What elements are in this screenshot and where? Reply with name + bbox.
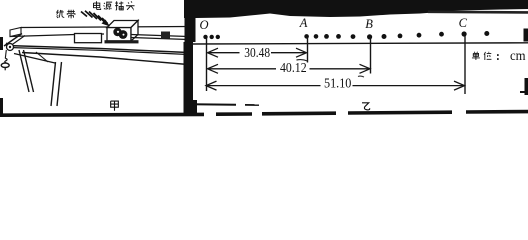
left scan edge bar — [0, 37, 3, 50]
measurement line C — [464, 36, 466, 94]
front-left leg line 1 — [19, 50, 29, 92]
timer base — [105, 40, 139, 43]
unit label wei — [484, 52, 491, 60]
timer mechanism disc2 — [119, 30, 128, 39]
svg-text:A: A — [299, 16, 308, 30]
table left corner inner edge — [8, 36, 25, 48]
tape dots A to C — [304, 31, 489, 40]
arrow 30.48 right head — [296, 48, 307, 57]
label jia — [111, 101, 119, 111]
arrow 51.10 right head — [454, 81, 465, 90]
arrow 40.12 shaft left — [208, 68, 277, 70]
weight pin — [4, 68, 6, 71]
arrow 51.10 left head — [206, 81, 217, 90]
B line bottom hook — [358, 75, 364, 78]
box right border middle segment — [525, 78, 528, 95]
svg-text:C: C — [459, 16, 468, 30]
tape lower line right of timer — [131, 38, 188, 40]
char dai — [67, 10, 75, 19]
timer mechanism hub2 — [123, 34, 125, 36]
svg-text:B: B — [365, 17, 373, 31]
svg-text:O: O — [200, 18, 209, 32]
arrow 40.12 right head — [360, 64, 371, 73]
measurement line O — [206, 38, 208, 91]
table corner brace diagonal — [14, 54, 55, 64]
arrow 40.12 shaft right — [310, 68, 370, 70]
table corner brace diagonal 2 — [36, 52, 48, 62]
A line bottom hook — [297, 60, 308, 61]
arrow 30.48 shaft right — [271, 52, 306, 54]
tape clamp block — [161, 32, 170, 39]
table top front edge second line — [9, 48, 188, 55]
measurement line A — [307, 37, 309, 63]
pulley — [7, 44, 14, 51]
box right border tick — [520, 91, 528, 93]
track board front edge — [10, 34, 104, 37]
tape top edge line right — [428, 11, 528, 14]
box top black band — [184, 0, 528, 18]
unit label dan — [472, 52, 492, 60]
table left corner edge — [4, 34, 22, 47]
table front face bottom edge — [22, 53, 188, 65]
arrow 30.48 left head — [208, 48, 219, 57]
back leg line 2 — [57, 62, 62, 106]
timer right face — [131, 21, 138, 42]
char cha — [115, 1, 123, 10]
tape upper line right of timer — [131, 35, 188, 37]
box right border top segment — [524, 29, 528, 42]
cart body — [75, 34, 102, 43]
track board left end face — [10, 28, 21, 37]
timer front face — [107, 28, 131, 42]
char dian — [93, 1, 100, 9]
box bottom partial line — [192, 103, 236, 106]
svg-text:cm: cm — [510, 49, 526, 64]
unit colon — [497, 54, 499, 60]
table top front edge — [6, 46, 188, 53]
box bottom dash — [245, 104, 259, 106]
arrow 51.10 shaft right — [353, 85, 465, 87]
svg-text:30.48: 30.48 — [244, 45, 270, 60]
label yi — [362, 103, 370, 110]
arrow 30.48 shaft left — [208, 52, 240, 54]
char tou — [126, 1, 135, 10]
timer mechanism hub — [117, 31, 119, 33]
timer mechanism disc — [113, 28, 121, 36]
back leg line 1 — [51, 62, 56, 106]
divider bottom blob — [184, 100, 197, 114]
tape dots near O — [203, 35, 220, 39]
svg-text:40.12: 40.12 — [280, 60, 307, 75]
hatched arrow head — [102, 20, 111, 27]
bottom frame line — [0, 112, 528, 116]
measurement line B — [370, 37, 372, 74]
char zhi — [56, 10, 64, 18]
track board top edge — [21, 27, 188, 28]
tape bottom edge line — [192, 43, 528, 44]
hatched power wire arrow — [81, 11, 108, 24]
svg-text:51.10: 51.10 — [324, 75, 352, 90]
weight disc — [1, 63, 9, 67]
pulley axle dot — [9, 46, 11, 48]
arrow 40.12 left head — [208, 64, 219, 73]
weight hook — [5, 58, 7, 63]
char yuan — [104, 2, 113, 10]
front-left leg line 2 — [24, 50, 34, 92]
label zhidai (paper tape) — [56, 10, 75, 19]
label dianyuan chatou (power plug) — [93, 1, 134, 10]
timer top face — [107, 21, 138, 28]
string — [5, 50, 6, 58]
pulley bracket — [6, 43, 11, 46]
arrow 51.10 shaft left — [208, 85, 321, 87]
